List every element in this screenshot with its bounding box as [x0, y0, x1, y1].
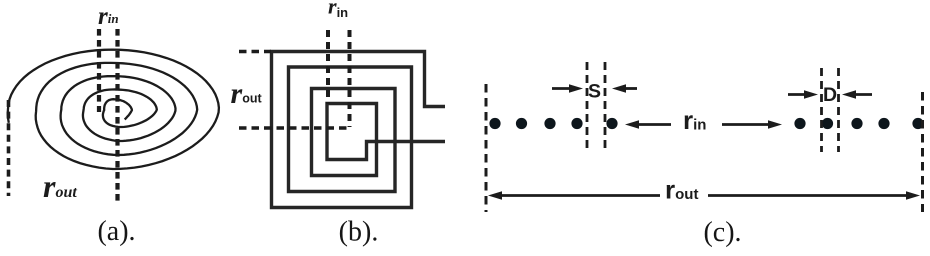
svg-text:(a).: (a).: [97, 216, 135, 247]
arrow pointing right at D: [788, 93, 806, 96]
svg-text:rin: rin: [328, 0, 348, 20]
dashed center axis line of (a): [115, 29, 119, 203]
dashed extension of top edge, left of (b): [239, 50, 271, 53]
r_out double-headed arrow, right part: [708, 194, 908, 197]
square spiral coil (b): [272, 52, 446, 208]
svg-text:D: D: [823, 84, 837, 106]
dashed vertical center axis of (b): [348, 30, 352, 127]
circular spiral coil (a): [8, 50, 219, 169]
svg-text:rout: rout: [665, 175, 698, 205]
dashed r_in marker line, left (inner radius) of (a): [97, 29, 101, 112]
arrow pointing left at S: [624, 87, 637, 90]
dashed spacing S marker lines: [586, 62, 589, 149]
svg-text:rin: rin: [98, 3, 119, 30]
arrow pointing left at D: [854, 93, 872, 96]
dashed r_out marker line, outer-left of (a): [7, 100, 11, 196]
dashed vertical r_in marker of (b): [326, 30, 330, 104]
dashed r_out boundary line, far left of (c): [485, 84, 488, 212]
svg-text:(b).: (b).: [339, 217, 379, 248]
svg-text:rout: rout: [231, 77, 263, 110]
svg-text:rout: rout: [43, 168, 77, 204]
arrow pointing right at S: [552, 87, 571, 90]
svg-text:S: S: [588, 81, 601, 103]
svg-text:(c).: (c).: [703, 217, 741, 248]
conductor dots, left group of (c): [489, 118, 617, 129]
dashed r_out boundary line, far right of (c): [921, 92, 924, 212]
arrow pointing left toward inner-left dot (r_in): [637, 123, 671, 126]
dashed diameter D marker lines: [820, 68, 823, 152]
conductor dots, right group of (c): [794, 118, 923, 129]
dashed horizontal center line of (b): [239, 126, 349, 129]
r_out double-headed arrow, left part: [500, 194, 660, 197]
arrow pointing right toward inner-right dot (r_in): [722, 123, 770, 126]
svg-text:rin: rin: [683, 105, 706, 135]
